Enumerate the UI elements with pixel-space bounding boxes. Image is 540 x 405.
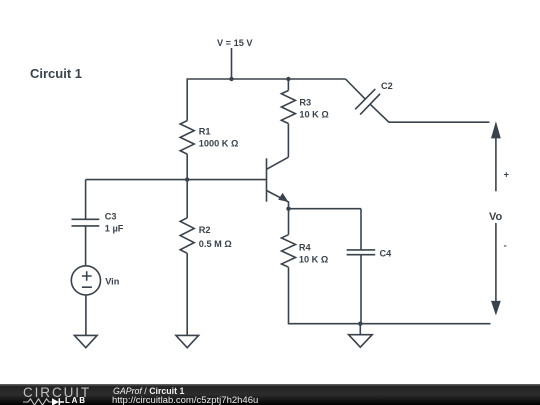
label R4: [299, 243, 312, 253]
label R4 value: [299, 255, 328, 265]
label V = 15 V: [217, 38, 253, 48]
svg-text:R1: R1: [199, 127, 211, 137]
resistor R1: [180, 121, 194, 154]
ground GND1: [74, 335, 97, 347]
resistor R4: [282, 235, 296, 268]
label R3: [299, 98, 311, 108]
wire C4 bottom stub: [360, 255, 362, 324]
svg-text:-: -: [504, 241, 507, 252]
wire R2 top: [186, 180, 188, 218]
wire R1 bottom to base node: [186, 154, 188, 180]
wire R3 top stub: [287, 79, 289, 91]
label C3: [105, 212, 117, 222]
node base junction: [185, 177, 189, 181]
footer meta text: [113, 386, 184, 396]
label R2 value: [199, 239, 232, 249]
wire R2 bottom to ground: [186, 253, 188, 335]
wire C2 right diagonal and output rail: [370, 104, 489, 122]
label Vo: [489, 211, 503, 223]
label C4: [380, 249, 393, 259]
wire Vo lower arrow: [491, 223, 501, 316]
svg-text:V = 15 V: V = 15 V: [217, 38, 253, 48]
CircuitLab logo: [22, 383, 24, 385]
wire R3 bottom to collector: [287, 124, 289, 158]
label plus: [504, 170, 510, 181]
svg-text:0.5 M Ω: 0.5 M Ω: [199, 239, 232, 249]
capacitor C3: [72, 219, 100, 226]
wire R4 top stub: [288, 209, 290, 235]
svg-text:10 K Ω: 10 K Ω: [299, 255, 328, 265]
label Circuit 1: [30, 66, 82, 81]
svg-text:C3: C3: [105, 212, 117, 222]
wire R4 bottom and bottom rail: [289, 267, 491, 324]
svg-text:10 K Ω: 10 K Ω: [299, 110, 328, 120]
svg-text:Vo: Vo: [489, 211, 503, 223]
wire C2 left diagonal: [346, 79, 366, 99]
svg-text:+: +: [504, 170, 510, 181]
wire C3 to Vin: [85, 226, 87, 266]
ground GND2: [176, 335, 199, 347]
svg-text:1000 K Ω: 1000 K Ω: [199, 139, 239, 149]
label R3 value: [299, 110, 328, 120]
wire Vo upper arrow: [491, 121, 501, 191]
wire ground stub: [359, 324, 361, 335]
label R1: [199, 127, 211, 137]
wire Vin to ground: [85, 295, 87, 335]
label Vin: [105, 277, 120, 287]
footer bar: [0, 384, 540, 405]
svg-text:C2: C2: [381, 81, 393, 91]
svg-text:1 µF: 1 µF: [105, 224, 124, 234]
label R2: [199, 225, 211, 235]
node bottom junction: [358, 322, 362, 326]
label minus: [504, 241, 507, 252]
capacitor C4: [347, 250, 376, 255]
source Vin: [71, 266, 100, 295]
capacitor C2: [355, 89, 380, 115]
transistor Q1: [267, 157, 289, 209]
svg-text:R2: R2: [199, 225, 211, 235]
label C2: [381, 81, 393, 91]
node R3 top junction: [286, 77, 290, 81]
svg-text:R4: R4: [299, 243, 312, 253]
ground GND3: [349, 335, 373, 348]
resistor R2: [180, 218, 194, 254]
node VCC junction: [229, 77, 233, 81]
wire top rail: [187, 79, 345, 121]
svg-text:Vin: Vin: [105, 277, 120, 287]
wire left drop to C3: [85, 180, 87, 220]
svg-text:Circuit 1: Circuit 1: [30, 66, 82, 81]
node emitter junction: [286, 207, 290, 211]
svg-text:C4: C4: [380, 249, 393, 259]
wire emitter rail to C4: [289, 208, 362, 210]
resistor R3: [281, 91, 295, 124]
svg-text:R3: R3: [299, 98, 311, 108]
footer url: [112, 395, 258, 405]
wire VCC stub: [231, 48, 233, 79]
label C3 value: [105, 224, 124, 234]
label R1 value: [199, 139, 239, 149]
wire base rail: [86, 179, 267, 181]
wire C4 top stub: [360, 209, 362, 250]
